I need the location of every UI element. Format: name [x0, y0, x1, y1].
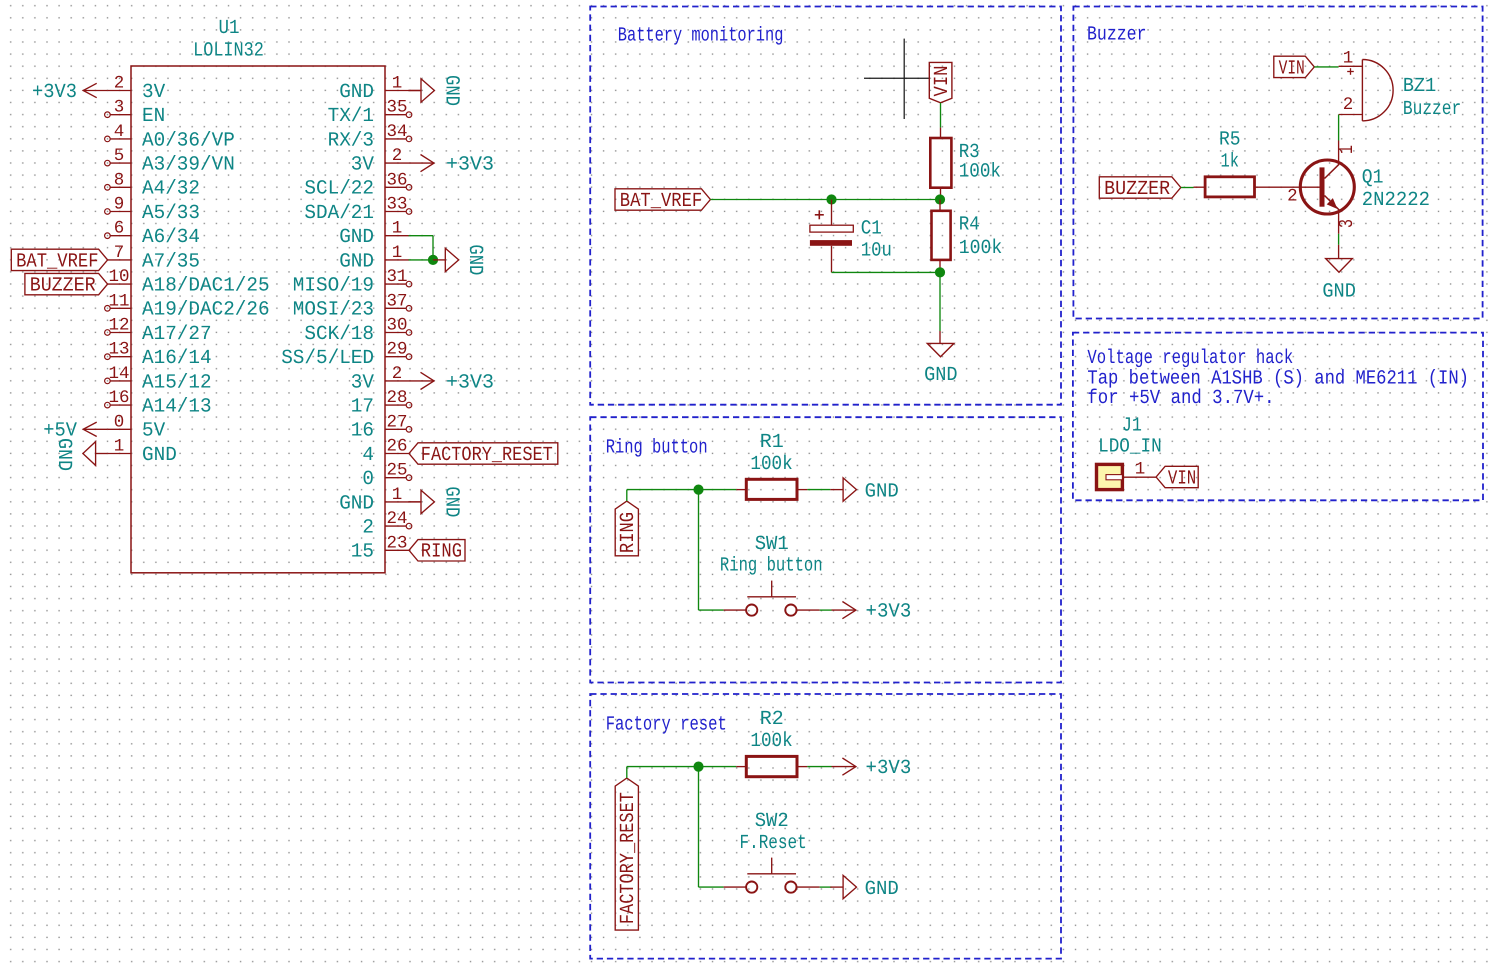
U1 right pin 30 (SCK/18)	[385, 332, 406, 334]
svg-text:RING: RING	[421, 541, 462, 564]
svg-text:A19/DAC2/26: A19/DAC2/26	[142, 299, 270, 322]
wire	[940, 103, 942, 128]
svg-text:A16/14: A16/14	[142, 347, 212, 370]
svg-text:LOLIN32: LOLIN32	[193, 39, 264, 62]
U1 right pin 28 (17)	[385, 404, 406, 406]
svg-text:7: 7	[114, 243, 125, 263]
U1 right pin 1 (GND)	[385, 235, 409, 237]
U1 right pin 27 (16)	[385, 428, 406, 430]
wire	[807, 489, 830, 491]
resistor R5	[1194, 186, 1206, 188]
wire	[626, 490, 628, 502]
power GND (U1 pins GND/GND)	[433, 259, 445, 261]
svg-text:Ring button: Ring button	[720, 555, 823, 578]
wire	[698, 767, 700, 888]
svg-text:LDO_IN: LDO_IN	[1098, 436, 1162, 459]
U1 right pin 24 (2)	[385, 525, 406, 527]
wire	[1314, 66, 1338, 68]
svg-text:3: 3	[1336, 219, 1359, 228]
svg-text:GND: GND	[865, 878, 899, 901]
svg-text:SCL/22: SCL/22	[304, 178, 374, 201]
svg-text:VIN: VIN	[1279, 57, 1305, 80]
svg-text:2: 2	[392, 146, 403, 166]
svg-text:MISO/19: MISO/19	[293, 275, 374, 298]
power +5V (U1 pin 0)	[83, 428, 107, 430]
svg-text:30: 30	[386, 316, 407, 336]
switch SW2	[724, 886, 747, 888]
U1 right pin 34 (RX/3)	[385, 138, 406, 140]
svg-text:3V: 3V	[142, 81, 165, 104]
svg-text:BAT_VREF: BAT_VREF	[620, 190, 702, 213]
power GND (U1 pin 1 left)	[96, 453, 108, 455]
svg-text:3V: 3V	[351, 154, 374, 177]
note frame Factory reset	[590, 694, 1061, 959]
svg-text:1: 1	[1135, 460, 1146, 480]
svg-text:2: 2	[1287, 186, 1298, 206]
U1 left pin 9 (A5/33)	[110, 211, 131, 213]
svg-text:FACTORY_RESET: FACTORY_RESET	[617, 792, 640, 924]
global label VIN (J1)	[1156, 466, 1198, 487]
junction node BAT_VREF/C1	[826, 194, 836, 204]
svg-text:+3V3: +3V3	[446, 371, 494, 394]
svg-text:2: 2	[362, 517, 374, 540]
svg-text:A15/12: A15/12	[142, 371, 212, 394]
junction	[428, 255, 438, 265]
svg-text:VIN: VIN	[1168, 467, 1196, 490]
wire	[939, 272, 941, 331]
switch SW1	[724, 609, 747, 611]
U1 left pin 16 (A14/13)	[110, 404, 131, 406]
resistor R1	[736, 489, 746, 491]
svg-text:35: 35	[386, 98, 407, 118]
svg-text:SW2: SW2	[755, 810, 789, 833]
svg-text:VIN: VIN	[931, 66, 954, 97]
svg-text:R1: R1	[760, 431, 784, 454]
global label RING (U1 pin 23)	[409, 540, 465, 561]
svg-text:11: 11	[108, 291, 129, 311]
svg-text:Factory reset: Factory reset	[606, 714, 727, 737]
svg-text:RING: RING	[617, 512, 640, 553]
svg-text:25: 25	[386, 461, 407, 481]
svg-text:A18/DAC1/25: A18/DAC1/25	[142, 275, 270, 298]
svg-text:37: 37	[386, 291, 407, 311]
svg-text:BUZZER: BUZZER	[1104, 178, 1170, 201]
U1 left pin 4 (A0/36/VP)	[110, 138, 131, 140]
note frame Battery monitoring	[590, 7, 1061, 405]
svg-text:Buzzer: Buzzer	[1087, 23, 1147, 46]
svg-text:15: 15	[351, 541, 374, 564]
svg-text:A0/36/VP: A0/36/VP	[142, 129, 235, 152]
svg-text:27: 27	[386, 412, 407, 432]
resistor R3	[940, 128, 942, 138]
U1 right pin 1 (GND)	[385, 90, 409, 92]
svg-text:6: 6	[114, 219, 125, 239]
wire	[1338, 115, 1340, 141]
svg-text:16: 16	[351, 420, 374, 443]
svg-text:2: 2	[392, 364, 403, 384]
svg-text:GND: GND	[865, 480, 899, 503]
power GND (battery)	[939, 331, 941, 343]
U1 left pin 3 (EN)	[110, 114, 131, 116]
svg-text:24: 24	[386, 509, 407, 529]
U1 left pin 5 (A3/39/VN)	[110, 162, 131, 164]
wire	[698, 490, 700, 610]
svg-text:EN: EN	[142, 105, 165, 128]
svg-text:GND: GND	[463, 244, 486, 275]
U1 left pin 2 (3V)	[108, 90, 131, 92]
global label RING (ring section)	[615, 501, 638, 556]
svg-text:SDA/21: SDA/21	[304, 202, 374, 225]
U1 right pin 1 (GND)	[385, 501, 409, 503]
svg-text:A3/39/VN: A3/39/VN	[142, 154, 235, 177]
svg-text:FACTORY_RESET: FACTORY_RESET	[421, 444, 553, 467]
svg-text:+3V3: +3V3	[446, 154, 494, 177]
svg-text:BZ1: BZ1	[1403, 75, 1436, 98]
U1 left pin 1 (GND)	[108, 453, 131, 455]
svg-text:SCK/18: SCK/18	[304, 323, 374, 346]
note frame Ring button	[590, 417, 1061, 682]
note frame Buzzer	[1073, 7, 1482, 319]
svg-text:GND: GND	[339, 492, 374, 515]
wire	[820, 886, 832, 888]
svg-text:33: 33	[386, 195, 407, 215]
svg-text:4: 4	[362, 444, 374, 467]
U1 left pin 11 (A19/DAC2/26)	[110, 307, 131, 309]
capacitor C1	[831, 200, 833, 226]
U1 right pin 33 (SDA/21)	[385, 211, 406, 213]
global label FACTORY_RESET (factory section)	[615, 778, 638, 930]
svg-text:28: 28	[386, 388, 407, 408]
svg-text:14: 14	[108, 364, 129, 384]
svg-text:J1: J1	[1122, 414, 1142, 437]
svg-text:A4/32: A4/32	[142, 178, 200, 201]
power GND (ring)	[830, 489, 843, 491]
svg-text:3: 3	[114, 98, 125, 118]
svg-text:100k: 100k	[959, 237, 1003, 260]
svg-text:GND: GND	[52, 438, 75, 471]
global label FACTORY_RESET (U1 pin 26)	[409, 443, 558, 464]
svg-text:Buzzer: Buzzer	[1403, 98, 1461, 121]
svg-text:2N2222: 2N2222	[1362, 189, 1430, 212]
svg-text:F.Reset: F.Reset	[740, 832, 807, 855]
power VIN (battery)	[929, 62, 952, 102]
svg-text:A17/27: A17/27	[142, 323, 212, 346]
svg-text:GND: GND	[142, 444, 177, 467]
U1 right pin 35 (TX/1)	[385, 114, 406, 116]
power +3V3 (factory)	[832, 766, 856, 768]
note frame Voltage regulator hack	[1073, 333, 1483, 501]
svg-text:16: 16	[108, 388, 129, 408]
svg-text:GND: GND	[439, 486, 462, 517]
global label BAT_VREF (U1 pin 7)	[11, 249, 107, 270]
svg-text:0: 0	[114, 412, 125, 432]
svg-text:R5: R5	[1219, 129, 1241, 152]
global label BAT_VREF (battery)	[615, 189, 710, 210]
U1 right pin 29 (SS/5/LED)	[385, 356, 406, 358]
svg-text:9: 9	[114, 195, 125, 215]
global label BUZZER (U1 pin 10)	[25, 273, 108, 294]
wire	[699, 766, 737, 768]
svg-text:5V: 5V	[142, 420, 165, 443]
wire	[820, 609, 832, 611]
svg-text:1: 1	[1343, 49, 1354, 69]
svg-text:+3V3: +3V3	[866, 601, 912, 624]
svg-text:2: 2	[1343, 95, 1354, 115]
svg-text:GND: GND	[339, 226, 374, 249]
svg-text:13: 13	[108, 340, 129, 360]
svg-text:1: 1	[392, 485, 403, 505]
svg-text:MOSI/23: MOSI/23	[293, 299, 374, 322]
svg-text:0: 0	[362, 468, 374, 491]
U1 right pin 26 (4)	[385, 453, 409, 455]
U1 right pin 25 (0)	[385, 477, 406, 479]
U1 right pin 36 (SCL/22)	[385, 186, 406, 188]
svg-text:R2: R2	[760, 708, 784, 731]
svg-text:100k: 100k	[959, 160, 1001, 183]
svg-text:23: 23	[386, 533, 407, 553]
svg-text:31: 31	[386, 267, 407, 287]
power +3V3 (U1 right pin 2)	[409, 162, 434, 164]
svg-text:GND: GND	[339, 250, 374, 273]
U1 left pin 14 (A15/12)	[110, 380, 131, 382]
svg-text:GND: GND	[339, 81, 374, 104]
svg-text:SS/5/LED: SS/5/LED	[281, 347, 374, 370]
svg-text:BUZZER: BUZZER	[30, 275, 96, 298]
svg-text:17: 17	[351, 396, 374, 419]
U1 left pin 8 (A4/32)	[110, 186, 131, 188]
U1 right pin 2 (3V)	[385, 380, 409, 382]
resistor R4	[939, 200, 941, 211]
svg-text:1k: 1k	[1221, 150, 1240, 173]
svg-text:A7/35: A7/35	[142, 250, 200, 273]
svg-text:8: 8	[114, 170, 125, 190]
svg-text:R4: R4	[959, 214, 980, 237]
U1 left pin 7 (A7/35)	[108, 259, 131, 261]
svg-text:GND: GND	[439, 75, 462, 106]
wire	[832, 271, 941, 273]
svg-text:BAT_VREF: BAT_VREF	[16, 250, 98, 273]
wire	[626, 767, 628, 779]
svg-text:A5/33: A5/33	[142, 202, 200, 225]
U1 right pin 31 (MISO/19)	[385, 283, 406, 285]
svg-text:TX/1: TX/1	[328, 105, 374, 128]
wire	[1181, 187, 1194, 189]
svg-text:+3V3: +3V3	[866, 757, 912, 780]
wire	[710, 199, 940, 201]
svg-text:100k: 100k	[750, 730, 792, 753]
svg-text:for +5V and 3.7V+.: for +5V and 3.7V+.	[1087, 387, 1274, 410]
svg-text:Q1: Q1	[1362, 167, 1384, 190]
svg-text:Ring button: Ring button	[606, 436, 708, 459]
global label VIN (buzzer)	[1274, 56, 1315, 77]
svg-text:C1: C1	[861, 217, 882, 240]
wire	[1338, 234, 1340, 245]
U1 left pin 12 (A17/27)	[110, 332, 131, 334]
svg-text:4: 4	[114, 122, 125, 142]
U1 right pin 1 (GND)	[385, 259, 409, 261]
svg-text:GND: GND	[1322, 280, 1356, 303]
svg-text:1: 1	[392, 219, 403, 239]
svg-text:10u: 10u	[861, 240, 892, 263]
power +3V3 (ring)	[832, 609, 856, 611]
wire	[699, 489, 737, 491]
svg-text:3V: 3V	[351, 371, 374, 394]
wire	[409, 235, 433, 237]
junction node R3/R4	[935, 194, 945, 204]
transistor Q1	[1338, 141, 1340, 165]
junction node FACTORY_RESET	[693, 762, 703, 772]
svg-text:36: 36	[386, 170, 407, 190]
power +3V3 (U1 right pin 2)	[409, 380, 434, 382]
svg-text:2: 2	[114, 74, 125, 94]
svg-text:A6/34: A6/34	[142, 226, 200, 249]
svg-text:1: 1	[392, 243, 403, 263]
svg-text:1: 1	[1336, 145, 1359, 154]
svg-text:U1: U1	[219, 17, 240, 40]
wire	[807, 766, 831, 768]
power GND (U1 pin 1 lower right)	[409, 501, 421, 503]
svg-text:SW1: SW1	[755, 533, 789, 556]
svg-text:+3V3: +3V3	[32, 81, 77, 104]
U1 right pin 2 (3V)	[385, 162, 409, 164]
svg-text:RX/3: RX/3	[328, 129, 374, 152]
svg-text:29: 29	[386, 340, 407, 360]
svg-text:A14/13: A14/13	[142, 396, 212, 419]
svg-text:12: 12	[108, 316, 129, 336]
svg-text:100k: 100k	[750, 453, 792, 476]
power GND (buzzer)	[1338, 245, 1340, 259]
power +3V3 (U1 pin 2)	[83, 90, 107, 92]
svg-text:GND: GND	[924, 364, 958, 387]
junction node RING	[693, 485, 703, 495]
buzzer BZ1	[1339, 65, 1363, 67]
svg-text:10: 10	[108, 267, 129, 287]
U1 left pin 10 (A18/DAC1/25)	[108, 283, 131, 285]
svg-text:1: 1	[392, 74, 403, 94]
U1 right pin 37 (MOSI/23)	[385, 307, 406, 309]
svg-text:34: 34	[386, 122, 407, 142]
svg-text:26: 26	[386, 437, 407, 457]
power GND (factory)	[830, 886, 843, 888]
global label BUZZER (buzzer section)	[1099, 177, 1181, 198]
U1 left pin 6 (A6/34)	[110, 235, 131, 237]
U1 left pin 13 (A16/14)	[110, 356, 131, 358]
resistor R2	[736, 766, 746, 768]
svg-text:Battery monitoring: Battery monitoring	[618, 24, 784, 47]
U1 right pin 23 (15)	[385, 549, 409, 551]
power GND (U1 pin 1 top right)	[409, 90, 421, 92]
junction node R4/GND	[935, 267, 945, 277]
cursor crosshair	[903, 39, 905, 119]
svg-text:1: 1	[114, 437, 125, 457]
U1 left pin 0 (5V)	[108, 428, 131, 430]
svg-text:5: 5	[114, 146, 125, 166]
op-amp U1 LOLIN32 body	[131, 66, 385, 573]
